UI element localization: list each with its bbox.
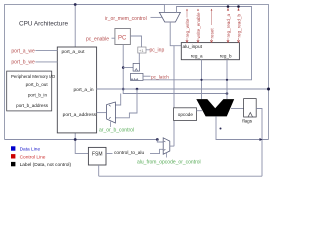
wire reg_a drop xyxy=(201,60,203,99)
node branch down xyxy=(136,88,139,91)
svg-text:flags: flags xyxy=(242,119,252,124)
flags register xyxy=(244,99,257,117)
mux M2 a_or_b xyxy=(107,102,116,123)
wire port_a_out to top frame xyxy=(75,5,164,48)
latch U2 bottom box xyxy=(131,73,144,80)
mux M3 input arrows xyxy=(164,141,166,150)
wire PC bottom down xyxy=(123,45,227,94)
wire PC out right to +1 xyxy=(130,36,141,47)
opcode box xyxy=(174,108,197,121)
mux M3 alu control xyxy=(163,138,170,154)
control column reg_write xyxy=(186,9,188,43)
svg-text:+1: +1 xyxy=(139,48,144,53)
wire mux right input from bus xyxy=(143,7,252,80)
wire FSM right control_to_alu xyxy=(106,149,163,153)
wire FSM bottom stub xyxy=(98,165,100,176)
node on frame xyxy=(267,88,270,91)
legend control line xyxy=(11,154,15,158)
ALU U3 xyxy=(196,99,234,116)
svg-text:port_a_address: port_a_address xyxy=(63,112,97,118)
svg-text:alu_input: alu_input xyxy=(183,44,203,50)
wire mux M2 output to port_a_address xyxy=(97,112,107,114)
legend data line xyxy=(11,146,15,150)
control column write_enable xyxy=(197,9,199,43)
svg-text:pc_inp: pc_inp xyxy=(150,48,165,54)
svg-text:reg_read_b: reg_read_b xyxy=(236,14,241,38)
wire reg_b drop xyxy=(226,60,228,99)
wire port_a_we xyxy=(35,50,57,52)
memory block central xyxy=(57,47,96,133)
node crossings on y79.8 xyxy=(200,79,202,81)
register file alu_input xyxy=(181,43,239,60)
legend label xyxy=(11,162,15,166)
svg-text:pc_latch: pc_latch xyxy=(151,74,169,80)
wire opcode to ALU xyxy=(197,110,203,112)
node tick on alu out xyxy=(220,128,222,130)
wire bus to mux M2 upper input xyxy=(115,94,120,106)
control column reg_read_a xyxy=(227,7,229,43)
svg-text:reg_read_a: reg_read_a xyxy=(226,14,231,38)
svg-text:reset: reset xyxy=(209,28,214,39)
wire pc_enable xyxy=(112,37,115,39)
svg-text:FSM: FSM xyxy=(92,152,103,158)
wire mux M2 select xyxy=(109,122,111,128)
svg-text:reg_b: reg_b xyxy=(220,53,232,58)
adder +1 box xyxy=(138,47,146,53)
FSM box xyxy=(88,147,106,165)
node at x75 y139 xyxy=(74,138,77,141)
wire red pc_latch stub xyxy=(143,75,151,77)
svg-text:Data Line: Data Line xyxy=(20,147,41,153)
wire ALU to flags xyxy=(231,108,244,110)
svg-text:Control Line: Control Line xyxy=(20,154,46,160)
wire red control into mux U1 xyxy=(151,16,163,18)
wire port_a_in bus xyxy=(97,88,269,90)
svg-text:port_a_we: port_a_we xyxy=(11,48,35,54)
svg-text:port_a_in: port_a_in xyxy=(73,87,93,93)
wire long left vertical to FSM xyxy=(75,47,88,153)
svg-text:write_enable: write_enable xyxy=(196,12,201,38)
wire long horizontal bus y139 xyxy=(5,139,158,141)
svg-text:opcode: opcode xyxy=(178,112,194,117)
wire into mux M3 top xyxy=(157,140,163,143)
mux U1 ir_or_mem top xyxy=(159,12,180,22)
control column reset xyxy=(211,9,213,43)
node on port_a_in bus xyxy=(122,88,125,91)
wire bottom feedback xyxy=(99,175,262,177)
wire mux M3 output xyxy=(170,145,174,147)
svg-text:port_b_out: port_b_out xyxy=(26,82,49,87)
node end dot y139 xyxy=(156,138,159,141)
svg-text:port_a_out: port_a_out xyxy=(62,49,86,55)
svg-text:reg_a: reg_a xyxy=(191,53,203,58)
wire +1 down to latch xyxy=(138,53,140,63)
wire branch to mux M2 lower input xyxy=(115,89,137,118)
register PC xyxy=(115,29,130,45)
wire mux U1 output down then right to alu_input xyxy=(170,22,181,46)
svg-text:PC: PC xyxy=(118,36,127,42)
wire ALU output down and right xyxy=(216,116,269,139)
up arrows under bus cols 4,5 xyxy=(227,8,240,10)
svg-text:port_b_in: port_b_in xyxy=(28,93,48,98)
wire port_b_we xyxy=(35,61,57,63)
node port_a_out top junction xyxy=(74,3,77,6)
label control_to_alu xyxy=(113,149,151,155)
svg-text:port_b_we: port_b_we xyxy=(11,60,35,66)
wire branch to latch xyxy=(123,67,133,69)
svg-text:Peripheral Memory I/O: Peripheral Memory I/O xyxy=(11,74,56,79)
arrow into riser xyxy=(260,138,263,141)
node pc latch branch xyxy=(122,66,125,69)
red entry arrows into alu_input xyxy=(186,40,240,42)
control column reg_read_b xyxy=(238,7,240,43)
svg-text:CPU Architecture: CPU Architecture xyxy=(19,21,68,28)
wire flags out right and down xyxy=(256,109,262,177)
peripheral memory box xyxy=(7,71,52,111)
svg-text:ir_or_mem_control: ir_or_mem_control xyxy=(105,16,147,22)
label pc_inp xyxy=(146,49,150,51)
wire outer loop top xyxy=(5,5,269,140)
svg-text:pc_enable: pc_enable xyxy=(86,37,109,43)
wire mux M3 select stub xyxy=(166,153,168,158)
svg-text:reg_write: reg_write xyxy=(185,18,190,37)
node end of pc bus at reg_b wire xyxy=(226,92,229,95)
svg-text:port_b_address: port_b_address xyxy=(16,103,49,108)
svg-text:Label (Data, not control): Label (Data, not control) xyxy=(20,162,72,168)
svg-text:alu_from_opcode_or_control: alu_from_opcode_or_control xyxy=(137,160,201,166)
latch U2 top box xyxy=(133,63,139,71)
svg-text:control_to_alu: control_to_alu xyxy=(114,150,144,156)
wire branch down to opcode xyxy=(173,46,175,147)
svg-text:ar_or_b_control: ar_or_b_control xyxy=(99,127,134,133)
